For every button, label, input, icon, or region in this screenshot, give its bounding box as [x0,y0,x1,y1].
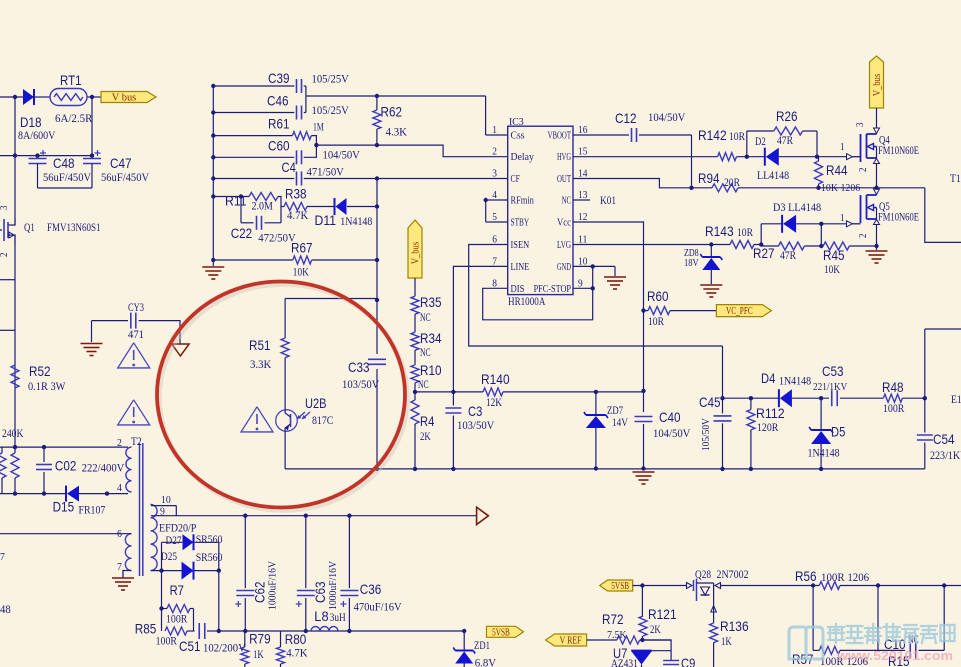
svg-text:9: 9 [578,278,583,289]
svg-text:C39: C39 [268,70,290,86]
svg-text:4: 4 [492,190,497,201]
svg-text:C4: C4 [282,159,296,175]
svg-text:16: 16 [578,125,587,136]
svg-text:4.7K: 4.7K [287,208,309,222]
svg-text:4.3K: 4.3K [386,125,408,139]
svg-text:R136: R136 [720,618,749,634]
svg-text:8A/600V: 8A/600V [18,128,56,142]
svg-text:12: 12 [578,212,587,223]
svg-text:FR107: FR107 [79,502,106,516]
svg-text:FM10N60E: FM10N60E [878,212,919,224]
svg-text:103/50V: 103/50V [342,377,380,391]
svg-text:C45: C45 [699,394,721,410]
svg-text:10: 10 [578,256,587,267]
svg-text:222/400V: 222/400V [82,460,125,474]
svg-text:C54: C54 [933,431,955,447]
svg-text:8: 8 [492,278,497,289]
svg-text:D2: D2 [755,134,766,148]
svg-text:R143: R143 [705,223,734,239]
svg-text:1M: 1M [313,120,324,134]
svg-text:www.520101.com: www.520101.com [836,649,953,663]
svg-text:471: 471 [128,327,144,341]
svg-text:7: 7 [492,256,497,267]
svg-text:6: 6 [117,528,122,540]
svg-text:FMV13N60S1: FMV13N60S1 [47,220,101,234]
svg-text:5VSB: 5VSB [492,627,510,638]
svg-text:R67: R67 [291,240,313,256]
svg-text:3: 3 [855,123,866,128]
svg-text:817C: 817C [312,413,333,427]
svg-text:10K: 10K [824,262,840,276]
svg-text:GND: GND [557,262,571,273]
svg-text:R112: R112 [756,405,785,421]
svg-text:D15: D15 [53,499,75,515]
svg-text:105/50V: 105/50V [701,418,712,451]
svg-text:471/50V: 471/50V [307,165,345,179]
svg-text:R85: R85 [135,620,157,636]
svg-text:R121: R121 [648,606,677,622]
svg-text:6A/2.5R: 6A/2.5R [55,111,92,125]
svg-text:3.3K: 3.3K [250,357,272,371]
svg-text:7.5K: 7.5K [607,629,627,641]
svg-text:NC: NC [420,345,431,359]
svg-text:7: 7 [0,551,5,563]
svg-text:C63: C63 [312,581,328,603]
svg-text:470uF/16V: 470uF/16V [354,600,402,614]
svg-text:OUT: OUT [557,174,571,185]
svg-text:D4: D4 [761,370,775,386]
svg-text:SR560: SR560 [196,532,223,546]
svg-text:LL4148: LL4148 [757,168,789,182]
svg-text:D25: D25 [161,549,177,563]
svg-text:100R: 100R [883,401,904,415]
svg-text:R10: R10 [420,362,442,378]
svg-text:1N4148: 1N4148 [779,373,811,387]
svg-text:1K: 1K [721,634,732,648]
svg-text:0.1R 3W: 0.1R 3W [28,379,66,393]
svg-text:C36: C36 [360,581,382,597]
svg-text:R94: R94 [698,170,720,186]
svg-text:C60: C60 [268,137,290,153]
svg-text:U2B: U2B [305,395,327,411]
svg-text:NC: NC [418,377,429,391]
svg-text:R44: R44 [826,162,848,178]
svg-text:11: 11 [578,235,587,246]
svg-text:L8: L8 [314,608,328,624]
svg-text:100R: 100R [166,612,187,626]
svg-text:10R: 10R [729,129,745,143]
svg-text:18V: 18V [684,257,699,269]
svg-text:RFmin: RFmin [511,196,535,207]
svg-text:C40: C40 [659,409,681,425]
svg-text:C51: C51 [179,638,201,654]
svg-text:HR1000A: HR1000A [508,294,546,308]
svg-text:R34: R34 [420,330,442,346]
svg-text:FM10N60E: FM10N60E [878,145,919,157]
svg-text:56uF/450V: 56uF/450V [43,170,91,184]
svg-text:R11: R11 [225,192,247,208]
svg-text:2K: 2K [650,622,661,636]
svg-text:C12: C12 [615,110,637,126]
svg-text:104/50V: 104/50V [653,426,691,440]
svg-text:1K: 1K [253,647,264,661]
svg-text:240K: 240K [2,426,24,440]
svg-text:V bus: V bus [112,92,137,104]
svg-text:C62: C62 [251,581,267,603]
svg-text:R72: R72 [602,611,624,627]
svg-text:4: 4 [117,482,122,494]
svg-text:C33: C33 [348,359,370,375]
svg-text:1N4148: 1N4148 [808,446,840,460]
svg-text:STBY: STBY [511,218,530,229]
svg-text:AZ431: AZ431 [611,656,638,667]
svg-text:100R 1206: 100R 1206 [821,570,869,584]
svg-text:K01: K01 [600,193,616,207]
svg-text:1000uF/16V: 1000uF/16V [266,561,278,610]
svg-text:PFC-STOP: PFC-STOP [534,284,572,295]
svg-text:HVG: HVG [557,152,571,163]
svg-text:NC: NC [420,310,431,324]
svg-text:1000uF/16V: 1000uF/16V [327,561,339,610]
svg-text:R52: R52 [29,363,51,379]
svg-text:2K: 2K [420,429,431,443]
svg-text:47R: 47R [780,248,796,262]
svg-text:1: 1 [840,142,845,153]
svg-text:R27: R27 [753,245,775,261]
svg-text:10R: 10R [648,314,664,328]
svg-text:5VSB: 5VSB [611,581,629,592]
svg-text:T1: T1 [950,171,961,185]
svg-text:DIS: DIS [511,284,525,295]
svg-text:6: 6 [492,235,497,246]
svg-text:Vcc: Vcc [557,218,571,229]
svg-text:R61: R61 [268,116,290,132]
svg-text:R45: R45 [823,247,845,263]
svg-text:5: 5 [492,212,497,223]
svg-text:SR560: SR560 [196,550,223,564]
svg-text:2: 2 [117,437,122,449]
svg-text:3: 3 [0,206,10,211]
svg-text:R4: R4 [420,413,434,429]
svg-text:3uH: 3uH [330,610,346,624]
svg-text:20R: 20R [724,175,740,189]
svg-text:C47: C47 [110,155,132,171]
svg-text:10K 1206: 10K 1206 [821,182,861,194]
svg-text:R142: R142 [698,127,727,143]
svg-text:R62: R62 [381,104,403,120]
svg-text:C02: C02 [55,458,77,474]
svg-text:R56: R56 [795,568,817,584]
svg-text:NC: NC [562,196,571,207]
svg-text:CY3: CY3 [128,300,144,314]
svg-text:100R: 100R [156,634,177,648]
svg-text:C53: C53 [822,363,844,379]
svg-text:3: 3 [492,169,497,180]
svg-text:V_bus: V_bus [411,242,422,264]
svg-text:R7: R7 [170,582,184,598]
svg-text:ISEN: ISEN [511,240,530,251]
svg-text:E1: E1 [951,392,961,406]
svg-text:1: 1 [840,213,845,224]
svg-text:ZD1: ZD1 [474,638,490,652]
svg-text:12K: 12K [486,395,502,409]
svg-text:R60: R60 [647,288,669,304]
svg-text:IC3: IC3 [509,116,524,128]
svg-text:R38: R38 [285,186,307,202]
svg-text:7: 7 [117,561,122,573]
svg-text:V_bus: V_bus [872,74,883,96]
svg-text:2: 2 [858,234,869,239]
svg-text:CF: CF [511,174,521,185]
svg-text:D11: D11 [315,212,337,228]
svg-text:47R: 47R [777,133,793,147]
svg-text:LVG: LVG [557,240,571,251]
svg-text:221/1KV: 221/1KV [813,381,847,393]
svg-text:1: 1 [492,125,497,136]
svg-text:VBOOT: VBOOT [548,131,572,142]
svg-text:Q1: Q1 [24,220,35,234]
svg-text:D3 LL4148: D3 LL4148 [773,200,821,214]
svg-text:13: 13 [578,190,587,201]
svg-text:48: 48 [0,602,11,616]
svg-text:C3: C3 [468,403,482,419]
svg-text:223/1KV: 223/1KV [930,448,961,462]
svg-text:R79: R79 [249,630,271,646]
svg-text:14: 14 [578,169,588,180]
svg-text:105/25V: 105/25V [312,72,350,86]
svg-text:Delay: Delay [511,152,535,163]
svg-text:103/50V: 103/50V [457,418,495,432]
svg-text:T2: T2 [131,434,142,448]
svg-text:120R: 120R [757,420,778,434]
svg-text:14V: 14V [612,415,628,429]
svg-text:6.8V: 6.8V [475,656,497,667]
svg-text:Css: Css [511,131,525,142]
svg-text:Q28: Q28 [695,567,711,581]
svg-text:R140: R140 [481,371,510,387]
svg-text:VC_PFC: VC_PFC [726,306,753,317]
svg-text:R48: R48 [882,379,904,395]
svg-text:D27: D27 [166,533,182,547]
svg-text:10K: 10K [293,264,309,278]
svg-text:D5: D5 [831,424,845,440]
svg-text:LINE: LINE [511,262,530,273]
svg-text:10: 10 [161,494,171,506]
svg-text:C22: C22 [231,225,253,241]
svg-text:2.0M: 2.0M [252,199,274,213]
svg-text:1N4148: 1N4148 [340,214,372,228]
svg-text:56uF/450V: 56uF/450V [101,170,149,184]
svg-text:C48: C48 [53,155,75,171]
svg-text:RT1: RT1 [60,72,82,88]
svg-text:10R: 10R [737,225,753,239]
svg-text:105/25V: 105/25V [312,103,350,117]
svg-text:R26: R26 [776,108,798,124]
svg-text:R51: R51 [249,337,271,353]
svg-text:104/50V: 104/50V [648,110,686,124]
svg-text:V REF: V REF [559,636,582,647]
svg-text:C9: C9 [681,655,695,667]
svg-text:2: 2 [0,253,10,258]
svg-text:15: 15 [578,147,587,158]
svg-text:C46: C46 [267,92,289,108]
svg-text:104/50V: 104/50V [323,147,361,161]
svg-text:R35: R35 [420,294,442,310]
svg-text:2: 2 [858,168,869,173]
svg-text:102/200V: 102/200V [203,641,246,655]
svg-text:2: 2 [492,147,497,158]
svg-text:2N7002: 2N7002 [717,567,749,581]
svg-text:4.7K: 4.7K [286,646,308,660]
